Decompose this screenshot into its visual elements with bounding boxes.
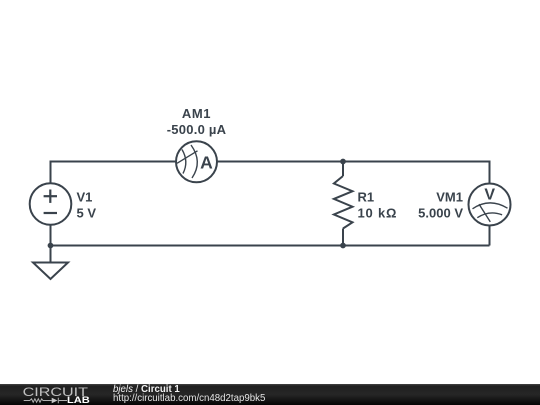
wire bottom rail	[51, 245, 490, 247]
wire VM1 bottom	[489, 226, 491, 246]
label R1 / 10 kOhm	[358, 189, 398, 220]
logo squiggle: wire + resistor + diode	[24, 398, 67, 404]
svg-text:10 kΩ: 10 kΩ	[358, 205, 398, 220]
svg-text:VM1: VM1	[436, 189, 463, 204]
svg-text:5 V: 5 V	[77, 205, 97, 220]
svg-text:V: V	[484, 187, 495, 204]
ammeter AM1	[176, 141, 217, 182]
footer bar	[0, 384, 540, 405]
wire bottom: V1 bottom rail to VM1	[50, 226, 52, 263]
junction node: R1 bottom	[340, 243, 346, 249]
wire R1 bottom stub	[342, 229, 344, 246]
junction node: V1 bottom	[48, 243, 54, 249]
svg-text:5.000 V: 5.000 V	[418, 205, 463, 220]
credit text	[113, 384, 265, 404]
wire top-left: V1 top to corner	[51, 162, 177, 184]
svg-text:A: A	[200, 152, 213, 172]
voltage source V1	[30, 183, 72, 225]
resistor R1	[334, 176, 353, 229]
voltmeter VM1	[469, 184, 511, 226]
svg-text:V1: V1	[77, 189, 93, 204]
ground	[33, 263, 68, 280]
svg-text:R1: R1	[358, 189, 375, 204]
svg-text:LAB: LAB	[67, 395, 90, 405]
wire R1 top stub	[342, 162, 344, 177]
label AM1 / -500.0 uA	[167, 106, 227, 137]
label V1 / 5 V	[77, 189, 97, 220]
svg-text:-500.0 µA: -500.0 µA	[167, 122, 227, 137]
svg-text:AM1: AM1	[182, 106, 211, 121]
junction node: R1 top	[340, 159, 346, 165]
CircuitLab logo	[0, 384, 110, 405]
wire top-right: AM1 to VM1	[218, 162, 490, 184]
label VM1 / 5.000 V	[418, 189, 463, 220]
